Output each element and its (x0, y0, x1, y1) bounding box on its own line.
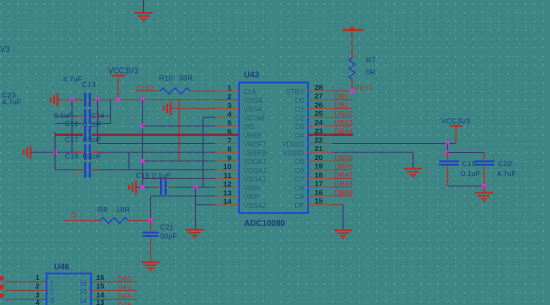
svg-text:0.1uF: 0.1uF (83, 135, 102, 144)
svg-text:ADC10080: ADC10080 (244, 218, 285, 228)
svg-text:VCC3V3: VCC3V3 (108, 66, 138, 75)
svg-text:DA4: DA4 (118, 293, 131, 300)
svg-text:VDDA2: VDDA2 (244, 168, 267, 175)
svg-text:DF: DF (295, 203, 304, 210)
svg-text:18R: 18R (116, 205, 130, 214)
svg-text:VREF: VREF (244, 133, 263, 140)
svg-text:D3: D3 (295, 124, 304, 131)
svg-text:1: 1 (50, 280, 54, 287)
svg-text:VSSA: VSSA (244, 107, 263, 114)
svg-text:DBA2: DBA2 (335, 111, 353, 118)
svg-text:VCC3V3: VCC3V3 (441, 117, 470, 126)
svg-text:DBA6: DBA6 (335, 164, 353, 171)
svg-text:15: 15 (96, 282, 104, 291)
svg-text:D1: D1 (295, 107, 304, 114)
svg-text:3: 3 (50, 298, 54, 305)
svg-text:16: 16 (96, 273, 104, 282)
svg-text:STBY2: STBY2 (351, 85, 373, 92)
svg-text:VINN: VINN (244, 185, 261, 192)
svg-text:D5: D5 (295, 159, 304, 166)
svg-text:C16: C16 (65, 119, 78, 128)
svg-text:D4: D4 (295, 133, 304, 140)
svg-text:R8: R8 (98, 205, 108, 214)
svg-text:C21: C21 (160, 223, 174, 232)
svg-text:DBA7: DBA7 (335, 172, 353, 179)
svg-text:Q: Q (71, 210, 77, 219)
svg-text:VCOM: VCOM (244, 115, 265, 122)
svg-text:D2: D2 (295, 115, 304, 122)
svg-text:V3: V3 (0, 45, 10, 54)
svg-text:R10: R10 (159, 74, 173, 83)
svg-text:0.1uF: 0.1uF (152, 171, 171, 180)
svg-text:4.7uF: 4.7uF (63, 75, 83, 84)
svg-text:4.7uF: 4.7uF (2, 98, 22, 107)
svg-text:C20: C20 (498, 159, 512, 168)
svg-text:DB1: DB1 (335, 102, 349, 109)
svg-text:DBA4: DBA4 (335, 129, 353, 136)
svg-text:D9: D9 (295, 194, 304, 201)
svg-text:DB0: DB0 (335, 94, 349, 101)
svg-text:C18: C18 (65, 152, 78, 161)
svg-text:50pF: 50pF (160, 232, 178, 241)
svg-text:IRS: IRS (244, 124, 256, 131)
svg-text:2: 2 (50, 289, 54, 296)
svg-text:R7: R7 (366, 56, 376, 65)
svg-text:DBA5: DBA5 (335, 155, 353, 162)
svg-text:33R: 33R (179, 74, 193, 83)
svg-text:VSSIO: VSSIO (283, 150, 305, 157)
svg-text:C17: C17 (65, 135, 78, 144)
svg-text:C19: C19 (462, 159, 476, 168)
svg-text:VDDA1: VDDA1 (244, 159, 267, 166)
svg-text:0.1uF: 0.1uF (83, 152, 102, 161)
svg-text:0R: 0R (366, 68, 376, 77)
svg-text:DBA3: DBA3 (335, 120, 353, 127)
svg-text:D6: D6 (295, 168, 304, 175)
svg-text:D7: D7 (295, 177, 304, 184)
svg-text:CLK: CLK (244, 89, 258, 96)
svg-text:STBY: STBY (286, 89, 305, 96)
svg-text:VREFT: VREFT (244, 142, 268, 149)
svg-text:VDDIO: VDDIO (282, 142, 305, 149)
svg-text:VDDA: VDDA (244, 98, 264, 105)
svg-text:DA3: DA3 (118, 284, 131, 291)
svg-text:4.7uF: 4.7uF (497, 169, 517, 178)
svg-text:DBA9: DBA9 (335, 190, 353, 197)
svg-text:2: 2 (35, 282, 39, 291)
svg-text:14: 14 (79, 298, 87, 305)
svg-text:13: 13 (96, 298, 104, 305)
svg-text:VSSA2: VSSA2 (244, 203, 267, 210)
svg-text:C15: C15 (136, 171, 149, 180)
svg-text:U43: U43 (244, 70, 260, 80)
svg-text:U46: U46 (54, 262, 70, 272)
svg-text:D8: D8 (295, 185, 304, 192)
svg-text:0.1uF: 0.1uF (461, 169, 481, 178)
svg-text:1: 1 (35, 273, 39, 282)
svg-text:16: 16 (79, 280, 87, 287)
svg-text:DBA8: DBA8 (335, 181, 353, 188)
svg-text:VINP: VINP (244, 194, 261, 201)
svg-text:VSSA1: VSSA1 (244, 177, 267, 184)
svg-text:15: 15 (79, 289, 87, 296)
svg-text:D0: D0 (295, 98, 304, 105)
svg-text:VREFB: VREFB (244, 150, 268, 157)
svg-text:C13: C13 (82, 80, 96, 89)
svg-text:DA2: DA2 (118, 276, 131, 283)
